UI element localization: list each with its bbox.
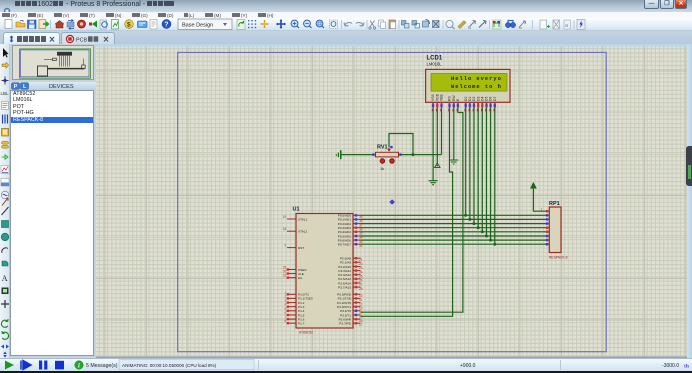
svg-text:U1: U1: [293, 207, 300, 213]
svg-text:?: ?: [164, 22, 168, 29]
new sheet: [540, 20, 547, 29]
grid: [248, 20, 256, 28]
voltage probe: [2, 198, 8, 206]
svg-text:19: 19: [283, 215, 287, 219]
undo: [344, 22, 352, 26]
svg-text:1: 1: [541, 208, 543, 212]
svg-text:XTAL1: XTAL1: [298, 217, 308, 221]
U1 right pin numbers: [359, 215, 363, 327]
svg-text:1k: 1k: [380, 166, 384, 171]
wire LCD VEE down: [441, 108, 443, 155]
mirror v: [3, 352, 7, 358]
svg-text:8: 8: [285, 319, 287, 323]
wire LCD VSS to ground: [432, 108, 434, 181]
svg-text:28: 28: [359, 287, 363, 291]
2d line: [2, 207, 9, 215]
bus: [3, 115, 8, 124]
junction D1/P0.1: [468, 218, 471, 221]
svg-text:32: 32: [359, 244, 363, 248]
RV1 adjust buttons: [380, 159, 394, 164]
decompose: [479, 21, 486, 28]
U1 left pin state squares: [287, 268, 289, 324]
ground (RW): [449, 160, 458, 164]
green arrows: [92, 21, 97, 28]
blue card: [138, 21, 148, 28]
U1 left pin numbers: [283, 215, 287, 323]
wire bus D2 vertical: [473, 108, 475, 224]
svg-text:$: $: [127, 21, 131, 28]
svg-text:ANIMATING: 00:00:10.050000 (CP: ANIMATING: 00:00:10.050000 (CPU load 8%): [122, 363, 217, 368]
magnifier doc: [100, 20, 107, 29]
2d symbol: [2, 288, 9, 295]
potentiometer RV1 body: [376, 148, 399, 157]
junction D5/P0.5: [485, 235, 488, 238]
refresh component: [67, 22, 74, 27]
svg-text:-3000.0: -3000.0: [662, 363, 679, 369]
svg-text:31: 31: [283, 274, 287, 278]
help: [162, 20, 171, 29]
pan: [277, 20, 285, 28]
cut: [370, 21, 375, 28]
svg-text:LBL: LBL: [1, 91, 10, 96]
search binoculars: [505, 22, 510, 27]
zoom in: [291, 20, 298, 27]
wire P0.2 row: [361, 223, 546, 225]
dollar: [125, 20, 134, 29]
remove sheet: [553, 20, 560, 29]
junction D0/P0.0: [464, 214, 467, 217]
svg-text:XTAL2: XTAL2: [298, 230, 308, 234]
wire P0.3 row: [361, 227, 546, 229]
U1 right pin stubs: [353, 215, 361, 323]
paste: [389, 20, 396, 29]
combo base design: [178, 19, 232, 30]
ground (VSS): [429, 181, 438, 185]
wire bus D4 vertical: [481, 108, 483, 232]
svg-text:i: i: [78, 363, 80, 370]
svg-text:Hello everyo: Hello everyo: [451, 76, 502, 82]
svg-text:A: A: [2, 274, 8, 283]
ground terminal (left): [336, 150, 342, 159]
open folder: [16, 22, 25, 27]
script: [2, 102, 9, 110]
svg-text:RV1: RV1: [377, 145, 388, 151]
U1 left pin labels: [298, 217, 313, 325]
block delete: [433, 21, 440, 28]
zoom area: [330, 20, 338, 29]
svg-text:5 Message(s): 5 Message(s): [86, 363, 118, 369]
svg-text:RP1: RP1: [549, 201, 560, 207]
svg-text:th: th: [684, 364, 689, 370]
wire bus D7 vertical: [494, 108, 496, 244]
import: [39, 20, 46, 29]
2d box: [2, 221, 9, 228]
wire RP1 pin1 to power: [533, 189, 545, 212]
2d circle: [1, 233, 9, 241]
wire LCD VDD to power: [436, 108, 438, 163]
terminal: [2, 142, 9, 145]
device pin: [2, 155, 9, 159]
mcu U1 part number: [299, 331, 313, 335]
U1 right pin labels: [337, 214, 352, 326]
sheet border: [178, 52, 607, 351]
LCD screen: [431, 74, 507, 92]
wire P0.5 row: [361, 235, 546, 237]
target gear: [78, 20, 86, 28]
svg-text:P2.7/A15: P2.7/A15: [338, 285, 351, 289]
goto sheet: [564, 20, 571, 29]
wire autorouter: [493, 20, 502, 29]
resistor pack RP1 label: [549, 201, 560, 207]
svg-text:Base Design: Base Design: [182, 22, 213, 28]
wire LCD RS to U1 P3.5: [361, 108, 453, 316]
wire P0.0 row: [361, 214, 546, 216]
rotate cw: [1, 319, 8, 327]
wire LCD RW to ground: [453, 108, 455, 160]
mcu U1 body: [296, 214, 353, 329]
junction D4/P0.4: [481, 230, 484, 233]
2d marker: [1, 300, 9, 308]
wire P0.4 row: [361, 231, 546, 233]
wire bus D6 vertical: [490, 108, 492, 240]
svg-text:P1.7: P1.7: [298, 322, 305, 326]
block rotate: [423, 21, 429, 27]
LCD pin stubs: [433, 102, 495, 108]
new page: [5, 20, 12, 29]
RP1 part number: [549, 256, 568, 260]
wire P0.7 row: [361, 243, 546, 245]
block copy: [402, 21, 407, 26]
wire RV1 left to ground terminal: [341, 154, 375, 156]
origin marker: [389, 199, 395, 205]
svg-text:VEE: VEE: [440, 93, 444, 101]
RV1 pin state squares: [372, 146, 401, 156]
mirror h: [1, 345, 9, 349]
power terminal (VDD): [435, 163, 440, 168]
LCD LCD1 labels: [427, 56, 443, 67]
subcircuit: [2, 129, 9, 137]
copy: [379, 20, 384, 27]
zoom all: [316, 20, 323, 27]
redo: [356, 22, 364, 26]
recycle sheet: [237, 20, 245, 30]
home: [55, 21, 64, 29]
junction D6/P0.6: [489, 239, 492, 242]
generator: [1, 191, 9, 199]
U1 right pin state squares: [355, 214, 357, 324]
component mode: [2, 62, 9, 68]
LCD LM016L body: [426, 69, 510, 102]
junction D7/P0.7: [493, 243, 496, 246]
wire P0.6 row: [361, 239, 546, 241]
LCD pin name labels: [431, 93, 497, 101]
potentiometer RV1 labels: [377, 145, 388, 172]
svg-text:+900.0: +900.0: [460, 363, 476, 369]
wire P0.1 row: [361, 218, 546, 220]
RP1 pin state squares: [546, 210, 548, 245]
LCD pin state squares: [432, 104, 496, 106]
mcu U1 label: [293, 207, 300, 213]
origin: [261, 20, 269, 28]
svg-text:LM016L: LM016L: [427, 62, 443, 67]
resistor pack RP1 body: [549, 207, 561, 253]
zap: [577, 20, 585, 30]
chart page: [112, 20, 119, 30]
wire RV1 right to VEE: [399, 154, 442, 156]
wire bus D3 vertical: [477, 108, 479, 228]
junction D2/P0.2: [473, 222, 476, 225]
rotate acw: [2, 331, 9, 339]
tape: [1, 179, 9, 187]
svg-text:D7: D7: [493, 97, 497, 101]
selector arrow: [3, 48, 9, 58]
power terminal (RP1 common): [531, 183, 536, 190]
wire bus D1 vertical: [469, 108, 471, 219]
LCD pin numbers: [432, 109, 496, 112]
svg-text:P3.7/RD: P3.7/RD: [339, 322, 351, 326]
svg-text:9: 9: [285, 244, 287, 248]
U1 left pin stubs: [287, 219, 296, 323]
wire bus D5 vertical: [486, 108, 488, 236]
make device: [458, 21, 466, 29]
svg-text:17: 17: [359, 323, 363, 327]
svg-text:RST: RST: [298, 246, 304, 250]
wire RV1 wiper loop: [389, 134, 413, 155]
svg-text:P0.7/AD7: P0.7/AD7: [338, 243, 352, 247]
svg-text:RESPACK-8: RESPACK-8: [549, 256, 568, 260]
assign: [519, 21, 526, 28]
block move: [412, 21, 417, 26]
2d arc: [2, 248, 8, 253]
wire LCD E to U1 P3.4: [361, 108, 463, 312]
pick: [446, 20, 453, 27]
RP1 pin 1 number: [541, 208, 543, 212]
junction D3/P0.3: [477, 226, 480, 229]
svg-text:PCB: PCB: [76, 37, 88, 43]
svg-text:AT89C52: AT89C52: [299, 331, 313, 335]
doc lines: [150, 20, 157, 30]
RP1 pin stubs: [546, 211, 550, 244]
packaging: [469, 21, 476, 28]
wire bus D0 vertical: [465, 108, 467, 215]
2d path: [2, 261, 8, 266]
svg-text:Welcome to h: Welcome to h: [451, 84, 502, 90]
save floppy: [28, 20, 37, 29]
svg-text:18: 18: [283, 227, 287, 231]
junction: [2, 77, 9, 85]
graph: [1, 166, 9, 174]
zoom out: [304, 20, 311, 27]
junction wiper-loop: [412, 153, 415, 156]
